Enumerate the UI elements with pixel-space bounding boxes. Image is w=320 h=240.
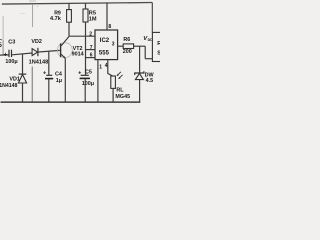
pin 8 wire to top rail xyxy=(106,3,108,30)
svg-text:4: 4 xyxy=(105,63,108,69)
pin 3 output wire xyxy=(118,45,124,47)
wire: R5 down through pin7/pin6 junctions to C5 xyxy=(85,22,87,75)
svg-text:C4: C4 xyxy=(55,72,62,78)
wire: VD1 to ground rail xyxy=(22,83,24,102)
resistor R9 4.7k xyxy=(68,3,70,9)
svg-text:3: 3 xyxy=(112,42,115,48)
svg-text:4.5: 4.5 xyxy=(146,78,154,84)
wire: collector up to R9 and pin2 junction xyxy=(68,22,70,36)
svg-text:R6: R6 xyxy=(123,37,130,43)
svg-text:100μ: 100μ xyxy=(5,59,17,65)
svg-text:7: 7 xyxy=(90,45,93,51)
wire: output node down to zener xyxy=(139,46,141,73)
wire: faint crease line xyxy=(32,4,34,27)
svg-text:1N4148: 1N4148 xyxy=(29,60,49,66)
svg-text:100μ: 100μ xyxy=(82,81,94,87)
svg-text:9014: 9014 xyxy=(72,52,84,58)
svg-text:VD1: VD1 xyxy=(9,77,20,83)
wire: faint left edge line xyxy=(2,16,4,40)
wire: top supply rail xyxy=(2,3,153,5)
svg-text:4.7k: 4.7k xyxy=(50,16,62,22)
svg-text:1: 1 xyxy=(99,64,102,70)
wire: C4 to ground rail xyxy=(48,79,50,102)
resistor R5 1M xyxy=(85,3,87,9)
wire: stub to output box xyxy=(145,58,152,60)
svg-text:IC2: IC2 xyxy=(100,38,110,44)
svg-text:C3: C3 xyxy=(8,39,15,45)
output box (cut off at right edge) xyxy=(152,32,162,61)
wire: junction down to VD1 xyxy=(22,54,24,74)
svg-text:+: + xyxy=(4,52,8,59)
svg-text:MG45: MG45 xyxy=(115,94,130,100)
svg-text:1μ: 1μ xyxy=(56,78,62,84)
wire: right supply drop to output box xyxy=(151,3,153,33)
IC IC2 (555 timer) xyxy=(95,30,118,60)
svg-text:8: 8 xyxy=(108,24,111,30)
svg-text:RL: RL xyxy=(116,88,124,94)
wire: junction down to C4 xyxy=(48,51,50,75)
svg-text:VD2: VD2 xyxy=(31,39,42,45)
photoresistor RL MG45 xyxy=(111,76,116,88)
zener diode DW 4.5V (cathode up) xyxy=(135,71,144,75)
wire: emitter to ground rail xyxy=(64,59,66,103)
svg-text:200: 200 xyxy=(123,49,132,55)
pin 4 wire to RL xyxy=(108,60,113,77)
wire: zener to ground rail xyxy=(139,80,141,102)
svg-text:C5: C5 xyxy=(85,70,92,76)
svg-text:555: 555 xyxy=(99,51,110,57)
resistor R6 200 xyxy=(123,44,133,49)
svg-text:1M: 1M xyxy=(89,16,97,22)
diode VD2 1N4148 xyxy=(32,49,37,56)
wire: input lead to C3 xyxy=(0,54,9,56)
wire: RL to ground rail xyxy=(112,88,114,102)
transistor VT2 9014 xyxy=(57,43,72,58)
pin 7 wire to R5 column xyxy=(86,49,95,51)
pin 6 wire to R5 column xyxy=(86,57,95,59)
pin 2 wire to collector/R9 xyxy=(69,35,95,37)
speckle smudges xyxy=(29,0,36,1)
svg-text:6: 6 xyxy=(90,53,93,59)
wire: drop to output box stub xyxy=(144,46,146,59)
pin 1 wire to ground xyxy=(97,60,99,102)
svg-text:S: S xyxy=(157,50,160,56)
diode VD1 1N4148 (vertical, cathode up) xyxy=(19,73,27,75)
wire: VD2 to transistor base, junction to C4 xyxy=(39,50,60,52)
wire: bottom ground rail xyxy=(1,101,141,103)
svg-text:R: R xyxy=(157,41,160,47)
wire: C3 to VD2 with junction to VD1 xyxy=(12,53,32,55)
background paper xyxy=(0,0,160,110)
wire: R6 to output node xyxy=(134,45,146,47)
wire: C5 to ground rail xyxy=(84,79,86,102)
svg-text:1N4148: 1N4148 xyxy=(0,83,17,89)
svg-text:2: 2 xyxy=(89,31,92,37)
